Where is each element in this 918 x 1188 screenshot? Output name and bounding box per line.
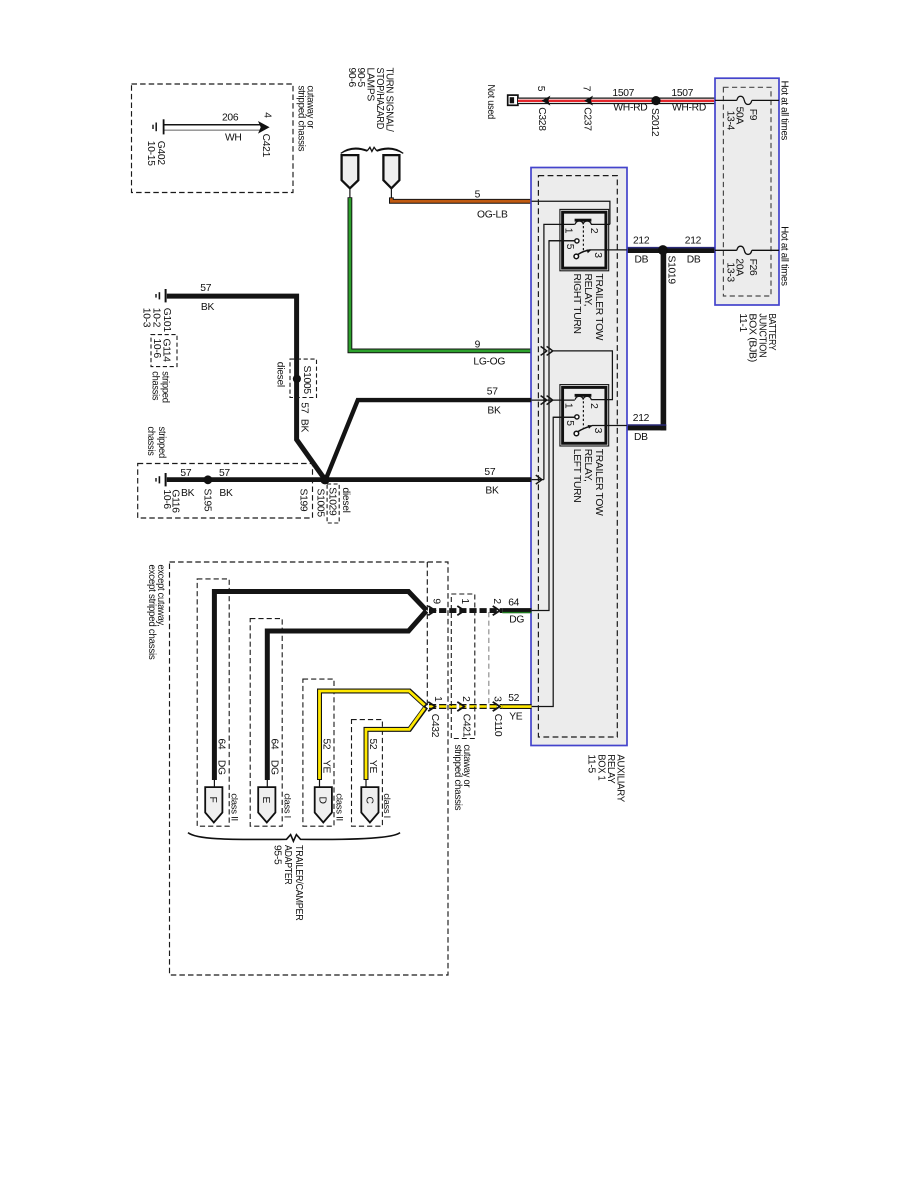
lamp connector (right, stop/hazard) [383, 155, 399, 188]
splice S2012 [651, 96, 660, 105]
ground G101 [156, 289, 166, 302]
svg-text:C421: C421 [461, 714, 472, 738]
relay1 coil loops [575, 221, 591, 224]
svg-text:RELAY,: RELAY, [582, 274, 593, 307]
svg-text:52: 52 [508, 693, 519, 704]
svg-text:stripped chassis: stripped chassis [452, 745, 463, 811]
trailer tow relay, left turn: body [563, 387, 606, 443]
dashed box connector E [250, 619, 282, 827]
dashed box: cutaway or stripped chassis (top-left) [132, 84, 294, 193]
internal wire: 57 BK feed through relay2 pin1 [532, 399, 575, 401]
trailer tow relay, left turn: outline [560, 385, 609, 446]
svg-text:90-6: 90-6 [346, 68, 357, 88]
svg-text:52: 52 [367, 739, 378, 750]
svg-text:1507: 1507 [671, 88, 693, 99]
svg-text:64: 64 [268, 739, 279, 750]
svg-text:S1029: S1029 [327, 487, 338, 516]
svg-text:WH: WH [225, 132, 242, 143]
svg-text:ADAPTER: ADAPTER [282, 845, 293, 885]
dashed box connector D [303, 679, 334, 826]
svg-text:C421: C421 [260, 134, 271, 158]
connector D stub [319, 780, 321, 788]
relay2 coil bar [575, 394, 592, 397]
relay1 switch pivot [574, 254, 579, 259]
svg-text:9: 9 [430, 598, 441, 604]
svg-text:S199: S199 [298, 489, 309, 512]
relay2 switch pivot [574, 431, 579, 436]
svg-text:57: 57 [219, 468, 230, 479]
svg-text:YE: YE [509, 712, 523, 723]
svg-text:LG-OG: LG-OG [473, 356, 505, 367]
label stripped chassis (upper) [149, 371, 170, 403]
label TRAILER TOW RELAY, LEFT TURN [571, 449, 604, 516]
label G116 10-6 [161, 489, 180, 513]
svg-text:1507: 1507 [612, 88, 634, 99]
svg-text:diesel: diesel [274, 362, 285, 387]
relay2 switch arm [578, 425, 593, 432]
wire 52 YE from connector C [366, 707, 426, 780]
lamp connector (left, turn signal) [342, 155, 359, 188]
connector chevron pin 1 (64 DG) [457, 606, 464, 615]
dashed partition line [426, 562, 428, 707]
internal wire: relay2 pin5 down to 52 YE [532, 417, 575, 706]
svg-text:S1005: S1005 [315, 489, 326, 518]
connector chevron pin 1 C432 [428, 702, 435, 711]
svg-text:64: 64 [216, 739, 227, 750]
svg-text:TRAILER TOW: TRAILER TOW [593, 449, 604, 516]
relay1 pin 3 lead [591, 249, 627, 251]
svg-text:F9: F9 [747, 109, 758, 121]
svg-text:F26: F26 [747, 259, 758, 276]
internal wire: green feed to relay2 pin2 [553, 351, 612, 400]
svg-text:D: D [317, 797, 328, 804]
svg-text:10-6: 10-6 [161, 489, 172, 509]
svg-text:F: F [207, 797, 218, 803]
svg-text:E: E [260, 797, 271, 804]
svg-text:TRAILER TOW: TRAILER TOW [593, 274, 604, 341]
svg-text:5: 5 [564, 244, 575, 250]
ground G116 [156, 473, 166, 486]
svg-text:5: 5 [535, 86, 546, 92]
svg-text:S1019: S1019 [665, 256, 676, 285]
svg-text:2: 2 [491, 598, 502, 604]
svg-text:class I: class I [382, 793, 392, 818]
svg-text:Hot at all times: Hot at all times [779, 81, 790, 141]
svg-text:chassis: chassis [149, 371, 160, 400]
svg-text:13-3: 13-3 [724, 262, 735, 282]
pass-through chevrons on green wire [541, 346, 553, 355]
svg-text:57: 57 [180, 468, 191, 479]
splice S1019 [658, 245, 668, 255]
ground G402 [153, 119, 164, 134]
svg-text:9: 9 [475, 339, 481, 350]
connector F stub [213, 780, 215, 788]
svg-text:57: 57 [299, 402, 310, 413]
junction splice S199/S1005/S1029 [320, 475, 330, 485]
label: cutaway or stripped chassis [295, 86, 315, 152]
internal wire: orange feed to relay1 pin2 [532, 201, 610, 224]
svg-text:YE: YE [321, 760, 332, 774]
svg-text:RELAY,: RELAY, [582, 449, 593, 482]
svg-text:Hot at all times: Hot at all times [779, 226, 790, 286]
connector chevron pin 9 (64 DG) [428, 606, 435, 615]
label except cutaway, except stripped chassis [146, 565, 166, 660]
label F26 20A 13-3 [724, 258, 758, 282]
battery junction box (BJB) [715, 78, 779, 305]
svg-text:206: 206 [222, 112, 239, 123]
splice S1005 dashed box [290, 359, 317, 397]
label TRAILER TOW RELAY, RIGHT TURN [571, 274, 604, 341]
internal wire: relay1 pin5 down to 64 DG [532, 241, 575, 611]
relay1 switch arm [578, 250, 591, 255]
label AUXILIARY RELAY BOX 1 11-5 [586, 754, 626, 802]
label BATTERY JUNCTION BOX (BJB) 11-1 [737, 313, 777, 362]
connector chevron pin 2 C421 [457, 702, 464, 711]
svg-text:C110: C110 [492, 714, 503, 737]
svg-text:Not used: Not used [485, 85, 496, 120]
pass-through chevrons on 57 BK upper wire [541, 396, 553, 405]
svg-text:C237: C237 [581, 107, 592, 131]
auxiliary relay box 1 [531, 168, 627, 746]
svg-text:diesel: diesel [340, 488, 351, 513]
svg-text:BK: BK [219, 488, 233, 499]
relay2 pin 3 lead [592, 425, 627, 427]
connector D [315, 787, 332, 822]
svg-text:7: 7 [581, 86, 592, 92]
svg-text:BK: BK [181, 488, 195, 499]
svg-text:3: 3 [491, 696, 502, 702]
label G114 10-6 [151, 339, 172, 363]
svg-text:DB: DB [635, 255, 649, 266]
svg-text:class I: class I [283, 793, 293, 818]
wire 212 DB: relay1 pin3 to S1019 to F26 [627, 247, 715, 253]
wire 64 DG from connector F [214, 592, 426, 781]
label TRAILER/CAMPER ADAPTER 95-5 [272, 845, 304, 921]
wire 64 DG from connector E [267, 611, 426, 780]
svg-text:11-5: 11-5 [586, 754, 597, 773]
svg-text:BK: BK [485, 485, 499, 496]
svg-text:13-4: 13-4 [724, 111, 735, 131]
relay2 pin 5 terminal [553, 415, 579, 419]
connector E stub [266, 780, 268, 788]
svg-text:BK: BK [487, 406, 501, 417]
svg-text:52: 52 [321, 739, 332, 750]
splice S195 [204, 475, 213, 484]
svg-text:DB: DB [634, 432, 648, 443]
svg-text:95-5: 95-5 [272, 845, 283, 865]
dashed box stripped chassis (G116) [138, 464, 313, 519]
svg-text:57: 57 [200, 283, 211, 294]
label F9 50A 13-4 [724, 107, 758, 131]
svg-text:TRAILER/CAMPER: TRAILER/CAMPER [293, 845, 304, 921]
svg-text:class II: class II [335, 793, 345, 821]
dashed box around C421 pins [451, 594, 475, 739]
splice S1005 [293, 375, 301, 383]
dashed box S1029 [327, 484, 339, 523]
wire 57 BK diagonal from junction up to relay box [327, 400, 532, 478]
pass-through chevron on 57 BK lower wire [536, 475, 542, 484]
svg-text:LEFT TURN: LEFT TURN [571, 449, 582, 503]
wire 212 DB vertical from S1019 to relay2 pin3 [627, 250, 666, 430]
svg-text:64: 64 [508, 598, 519, 609]
connector chevron pin 3 C110 [493, 702, 500, 711]
connector chevron pin 2 (64 DG) [493, 606, 500, 615]
svg-text:2: 2 [588, 228, 599, 234]
svg-text:DG: DG [216, 760, 227, 775]
relay1 coil-switch dashed link [582, 226, 584, 252]
svg-text:stripped: stripped [156, 427, 167, 459]
connector E [258, 787, 275, 822]
svg-text:57: 57 [484, 467, 495, 478]
wire 52 YE dashed segment to relay box [429, 704, 532, 709]
svg-text:stripped chassis: stripped chassis [295, 86, 306, 152]
svg-text:2: 2 [460, 696, 471, 702]
svg-text:5: 5 [475, 190, 481, 201]
dashed box connector F [197, 579, 229, 826]
svg-text:BK: BK [201, 302, 215, 313]
svg-text:S2012: S2012 [649, 108, 660, 137]
fuse F26 20A wire [715, 246, 779, 254]
label stripped chassis (lower) [145, 427, 167, 459]
svg-text:3: 3 [592, 252, 603, 258]
brace over lamp connectors [340, 147, 403, 154]
svg-text:except stripped chassis: except stripped chassis [146, 565, 157, 660]
connector arrow C328 pin 5 [542, 96, 551, 106]
svg-text:1: 1 [563, 403, 574, 409]
dashed box G114 10-6 [151, 335, 177, 367]
relay1 pin 5 terminal [549, 239, 579, 243]
wire 9 LG-OG (green) from left lamp to relay box [350, 188, 532, 351]
svg-text:OG-LB: OG-LB [477, 209, 508, 220]
svg-text:10-15: 10-15 [145, 141, 156, 166]
svg-text:11-1: 11-1 [737, 313, 748, 332]
svg-text:3: 3 [592, 428, 603, 434]
svg-text:57: 57 [487, 386, 498, 397]
svg-text:1: 1 [563, 228, 574, 234]
svg-text:C: C [363, 797, 374, 805]
svg-text:212: 212 [685, 236, 702, 247]
svg-text:1: 1 [459, 598, 470, 604]
aux box inner dashed outline [538, 176, 617, 737]
connector arrow C237 pin 7 [584, 96, 593, 106]
svg-text:212: 212 [633, 236, 650, 247]
dashed box: except cutaway, except stripped chassis [170, 562, 449, 975]
svg-text:4: 4 [261, 112, 272, 118]
BJB inner dashed outline [723, 87, 771, 296]
svg-text:10-3: 10-3 [141, 308, 152, 328]
gray dashed link C110 pins [488, 612, 490, 705]
wire 1507 WH-RD (white w/ red stripe) [518, 98, 715, 105]
svg-text:WH-RD: WH-RD [613, 102, 647, 113]
svg-text:DG: DG [509, 614, 524, 625]
wire 52 YE from connector D [320, 691, 427, 780]
not-used terminal box [508, 95, 518, 105]
svg-text:RIGHT TURN: RIGHT TURN [571, 274, 582, 334]
wire 57 BK from G116 through S195 to junction and relay box [167, 477, 532, 482]
wire 57 BK from G101 down through S1005 to junction [167, 296, 324, 477]
relay2 coil loops [575, 396, 591, 399]
svg-text:DG: DG [268, 760, 279, 775]
trailer tow relay, right turn: outline [560, 209, 609, 270]
label cutaway or stripped chassis (lower) [452, 745, 472, 811]
label: TURN SIGNAL/STOP/HAZARD LAMPS 90-5 90-6 [346, 68, 395, 132]
svg-text:C328: C328 [536, 107, 547, 131]
svg-text:chassis: chassis [145, 427, 156, 456]
svg-text:C432: C432 [429, 714, 440, 738]
brace trailer/camper adapter [188, 833, 400, 842]
internal wire: 57 BK (lower) stub [532, 479, 544, 481]
connector C [361, 787, 378, 822]
svg-text:1: 1 [432, 696, 443, 702]
trailer tow relay, right turn: body [563, 212, 606, 268]
svg-text:BK: BK [299, 419, 310, 433]
fuse F9 50A wire [715, 96, 779, 104]
wire 206 WH (white wire) [165, 125, 262, 131]
label G402 10-15 [145, 141, 166, 166]
svg-text:WH-RD: WH-RD [672, 102, 706, 113]
dashed box connector C [352, 720, 383, 827]
svg-text:YE: YE [367, 760, 378, 774]
relay2 coil-switch dashed link [582, 401, 584, 428]
internal wire: relay1 pin2 lead [591, 223, 610, 225]
connector C stub [365, 780, 367, 788]
svg-text:5: 5 [564, 420, 575, 426]
svg-text:S195: S195 [202, 489, 213, 512]
connector F [205, 787, 222, 822]
wire 5 OG-LB (orange) from right lamp to relay box [391, 188, 531, 201]
svg-text:DB: DB [687, 255, 701, 266]
connector arrow C421 pin 4 [258, 121, 270, 134]
svg-text:class II: class II [230, 793, 240, 821]
svg-text:212: 212 [633, 413, 650, 424]
wire 64 DG dashed segment to relay box [429, 608, 532, 613]
svg-text:10-6: 10-6 [151, 339, 162, 359]
relay1 coil bar [575, 219, 592, 222]
svg-text:2: 2 [588, 403, 599, 409]
svg-text:S1005: S1005 [301, 366, 312, 395]
label G101 10-2 10-3 [141, 308, 172, 333]
internal wire: relay1 pin1 down to ground wire 57 BK [544, 224, 575, 479]
